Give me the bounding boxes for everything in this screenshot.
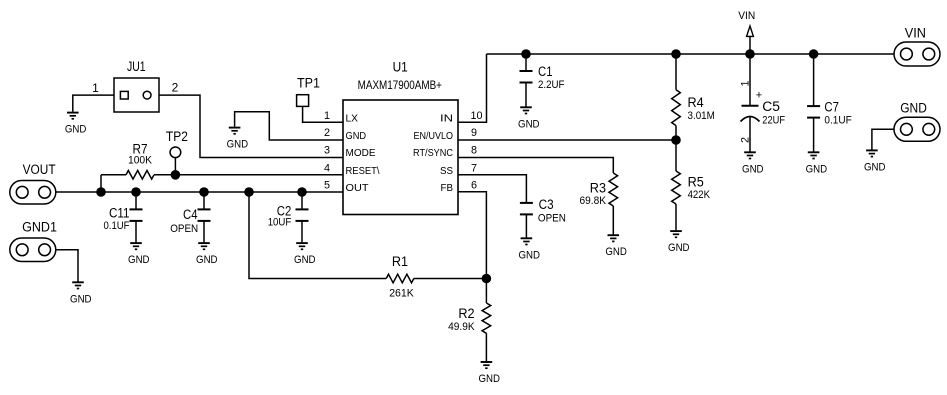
test point TP2 — [166, 129, 188, 157]
junction feedback node (R1/R2/FB) — [482, 274, 492, 284]
svg-text:69.8K: 69.8K — [580, 195, 607, 207]
junction C2 on rail — [297, 187, 307, 197]
svg-text:GND: GND — [806, 163, 828, 175]
svg-text:GND: GND — [900, 101, 927, 116]
svg-text:GND1: GND1 — [22, 220, 57, 235]
wire R7 to U1 RESET pin 4 — [154, 174, 343, 176]
connector VIN — [894, 26, 940, 66]
svg-text:5: 5 — [324, 180, 330, 192]
ground (C11) — [128, 243, 150, 266]
junction R4 on input rail — [671, 49, 681, 59]
svg-text:3.01M: 3.01M — [688, 110, 715, 122]
svg-text:LX: LX — [346, 114, 359, 125]
svg-text:GND: GND — [605, 246, 627, 258]
svg-text:GND: GND — [128, 254, 150, 266]
svg-text:C7: C7 — [824, 100, 839, 115]
resistor R1 — [386, 254, 414, 299]
svg-text:GND: GND — [864, 161, 886, 173]
junction R7 branch on output rail — [96, 187, 106, 197]
svg-text:8: 8 — [471, 145, 477, 157]
svg-text:R3: R3 — [590, 180, 606, 195]
svg-text:GND: GND — [518, 118, 540, 130]
resistor R3 — [580, 173, 618, 234]
wire TP1 to U1 LX pin 1 — [303, 106, 343, 122]
junction R4/R5 on EN/UVLO — [671, 135, 681, 145]
svg-text:C3: C3 — [539, 197, 554, 212]
wire U1 FB pin 6 to feedback node — [458, 192, 486, 279]
junction C11 on rail — [131, 187, 141, 197]
svg-text:+: + — [756, 90, 762, 102]
svg-text:GND: GND — [668, 242, 690, 254]
wire ground to U1 GND pin 2 — [235, 112, 343, 140]
svg-text:VIN: VIN — [905, 26, 926, 41]
ground (U1 GND pin 2) — [227, 128, 249, 151]
wire input rail (VIN) — [487, 53, 895, 55]
capacitor C4 — [170, 192, 210, 242]
junction C5 on input rail — [745, 49, 755, 59]
junction C4 on rail — [199, 187, 209, 197]
junction feedback tap on rail — [244, 187, 254, 197]
wire U1 EN/UVLO pin 9 to R4/R5 divider — [458, 139, 676, 141]
capacitor C2 — [268, 192, 309, 242]
svg-text:4: 4 — [324, 162, 330, 174]
ground (C3) — [518, 238, 540, 261]
svg-text:GND: GND — [478, 373, 500, 385]
svg-text:2: 2 — [172, 80, 179, 94]
wire TP2 stub — [174, 158, 176, 175]
svg-text:C5: C5 — [762, 99, 780, 114]
svg-text:422K: 422K — [688, 189, 711, 201]
wire JU1 pin1 to ground — [73, 95, 114, 112]
svg-text:RESET\: RESET\ — [346, 166, 380, 177]
svg-text:OUT: OUT — [346, 183, 369, 194]
wire GND connector to ground — [872, 129, 894, 149]
svg-text:GND: GND — [518, 249, 540, 261]
svg-text:GND: GND — [294, 254, 316, 266]
junction C1 on input rail — [521, 49, 531, 59]
ground (C2) — [294, 243, 316, 266]
svg-text:7: 7 — [471, 162, 477, 174]
wire VOUT to U1 OUT pin 5 (output rail) — [56, 191, 343, 193]
ground (C1) — [518, 107, 540, 130]
svg-text:0.1UF: 0.1UF — [104, 220, 130, 232]
wire U1 RT/SYNC pin 8 to R3 — [458, 158, 613, 174]
svg-text:RT/SYNC: RT/SYNC — [413, 148, 453, 159]
svg-text:GND: GND — [227, 139, 249, 151]
svg-text:GND: GND — [70, 293, 92, 305]
svg-text:1: 1 — [92, 81, 99, 95]
svg-text:10: 10 — [470, 110, 482, 122]
junction C7 on input rail — [809, 49, 819, 59]
capacitor C11 — [104, 192, 143, 242]
connector GND1 — [10, 220, 57, 262]
svg-text:1: 1 — [739, 80, 751, 86]
svg-text:9: 9 — [471, 127, 477, 139]
ground (C5) — [742, 152, 764, 175]
svg-text:VOUT: VOUT — [23, 162, 56, 177]
svg-text:OPEN: OPEN — [538, 212, 566, 224]
ground (R3) — [605, 235, 627, 258]
svg-text:FB: FB — [441, 183, 454, 194]
connector VOUT — [10, 162, 56, 204]
svg-text:IN: IN — [440, 114, 453, 125]
resistor R4 — [672, 54, 715, 140]
svg-text:VIN: VIN — [738, 10, 755, 22]
svg-text:2: 2 — [324, 127, 330, 139]
power symbol VIN (arrow) — [738, 10, 755, 54]
wire R1 to FB node — [414, 278, 487, 280]
svg-text:MODE: MODE — [346, 148, 376, 159]
ground (C7) — [806, 152, 828, 175]
capacitor C1 — [520, 54, 565, 107]
svg-text:OPEN: OPEN — [170, 223, 198, 235]
svg-text:TP1: TP1 — [297, 76, 320, 91]
wire output rail down to R1 — [249, 192, 386, 279]
capacitor C7 — [807, 54, 852, 152]
svg-text:1: 1 — [324, 110, 330, 122]
svg-text:TP2: TP2 — [166, 129, 188, 144]
ground (R5) — [668, 231, 690, 254]
resistor R7 — [101, 171, 154, 180]
wire R7 branch from output rail — [100, 175, 102, 192]
svg-text:261K: 261K — [389, 288, 414, 300]
wire U1 IN pin 10 to input rail — [458, 54, 487, 122]
ground (GND1) — [70, 282, 92, 305]
svg-text:EN/UVLO: EN/UVLO — [414, 131, 454, 142]
svg-text:49.9K: 49.9K — [448, 321, 475, 333]
ground (GND connector) — [864, 150, 886, 173]
svg-text:GND: GND — [196, 254, 218, 266]
svg-text:R4: R4 — [688, 95, 705, 110]
svg-text:C4: C4 — [183, 207, 198, 222]
wire GND1 to ground — [56, 250, 78, 282]
svg-text:R5: R5 — [688, 175, 704, 190]
svg-text:SS: SS — [440, 166, 453, 177]
svg-text:C1: C1 — [538, 64, 553, 79]
svg-text:U1: U1 — [393, 60, 408, 75]
svg-text:GND: GND — [346, 131, 367, 142]
svg-text:22UF: 22UF — [762, 114, 785, 126]
ground (JU1 pin1) — [65, 113, 87, 136]
resistor R2 — [448, 279, 491, 362]
svg-text:100K: 100K — [128, 155, 153, 167]
svg-text:GND: GND — [742, 163, 764, 175]
op-amp U1 (MAXM17900AMB+ regulator) — [343, 60, 458, 215]
capacitor C3 — [520, 197, 566, 238]
ground (R2) — [478, 362, 500, 385]
U1 pin numbers — [324, 110, 483, 192]
svg-text:R1: R1 — [392, 254, 408, 269]
jumper JU1 — [114, 59, 159, 112]
wire U1 SS pin 7 to C3 — [458, 175, 526, 203]
svg-text:0.1UF: 0.1UF — [824, 115, 852, 127]
U1 pin names — [346, 114, 454, 195]
ground (C4) — [196, 243, 218, 266]
svg-text:3: 3 — [324, 145, 330, 157]
svg-text:C11: C11 — [109, 206, 130, 221]
svg-text:6: 6 — [471, 180, 477, 192]
svg-text:2.2UF: 2.2UF — [538, 79, 565, 91]
resistor R5 — [672, 140, 711, 230]
svg-text:GND: GND — [65, 124, 87, 136]
wire JU1 pin2 to U1 MODE pin 3 — [159, 95, 343, 157]
test point TP1 — [297, 76, 320, 107]
svg-text:2: 2 — [739, 137, 751, 143]
svg-text:R2: R2 — [458, 306, 474, 321]
connector GND — [894, 101, 940, 142]
junction TP2 on RESET line — [171, 170, 181, 180]
capacitor C5 (polarized) — [741, 54, 786, 152]
svg-text:JU1: JU1 — [127, 59, 146, 74]
svg-text:10UF: 10UF — [268, 217, 292, 229]
svg-text:MAXM17900AMB+: MAXM17900AMB+ — [358, 78, 442, 92]
